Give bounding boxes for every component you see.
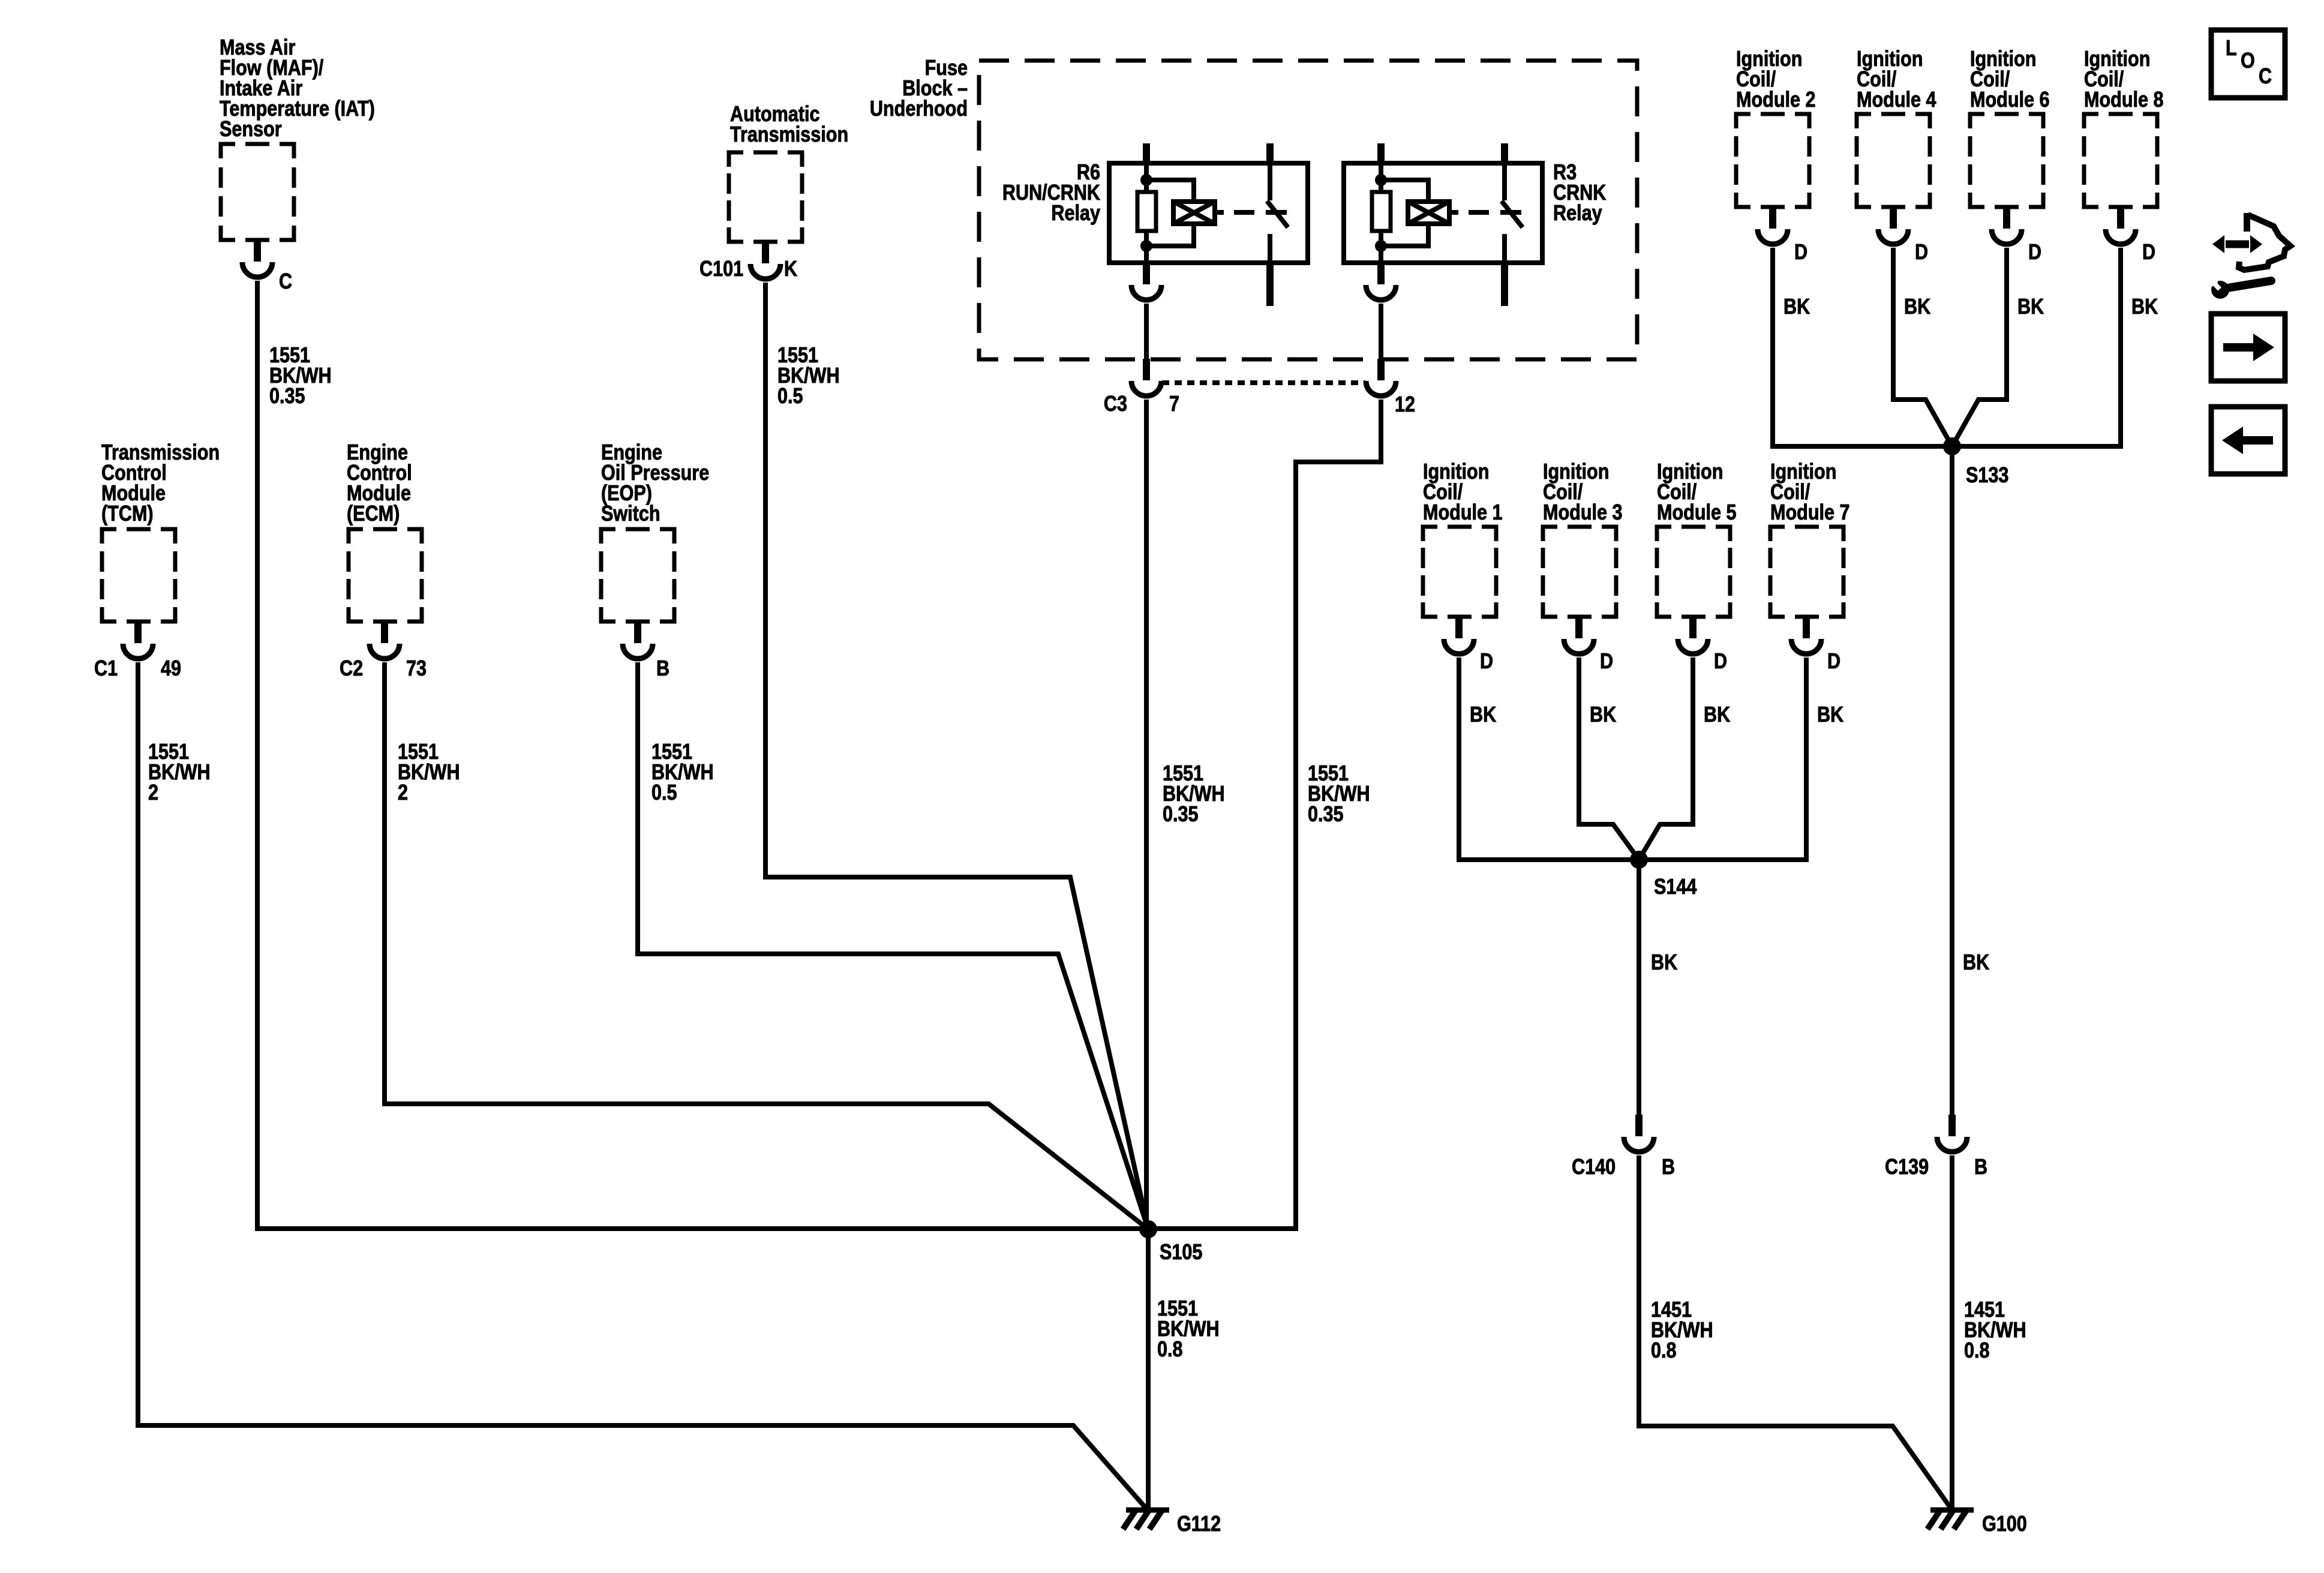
svg-text:0.5: 0.5 — [777, 385, 803, 409]
svg-text:C1: C1 — [94, 657, 118, 681]
Automatic Transmission box — [729, 152, 802, 242]
wire label 1451 BK/WH 0.8 (C139 to G100) — [1964, 1298, 2026, 1363]
svg-text:Relay: Relay — [1051, 202, 1100, 226]
wire coil module 3 to S144 — [1579, 658, 1639, 860]
svg-text:(ECM): (ECM) — [347, 502, 400, 526]
label Ignition Coil/Module 7 — [1770, 460, 1850, 525]
svg-text:2: 2 — [398, 781, 408, 805]
ground G100 — [1927, 1510, 1974, 1529]
svg-text:D: D — [1600, 650, 1613, 674]
label R3 CRNK Relay — [1553, 161, 1606, 226]
wire coil module 8 to S133 — [1952, 248, 2121, 446]
ground G112 — [1123, 1510, 1169, 1529]
service/repair icon (double arrow, part outline, wrench) — [2208, 213, 2290, 299]
connector pin D of Ignition Coil/Module 2 — [1758, 207, 1788, 244]
svg-text:BK: BK — [2131, 295, 2158, 319]
EOP switch box — [601, 529, 674, 622]
wire label 1551 BK/WH 2 (ECM) — [398, 740, 460, 805]
svg-text:(TCM): (TCM) — [101, 502, 154, 526]
svg-text:L: L — [2226, 37, 2237, 61]
svg-text:49: 49 — [161, 657, 181, 681]
Ignition Coil/Module 4 box — [1857, 114, 1930, 207]
svg-text:BK: BK — [1963, 951, 1989, 975]
wire C140 B to G100 — [1639, 1155, 1952, 1510]
svg-text:C139: C139 — [1885, 1155, 1929, 1179]
svg-text:BK: BK — [1470, 703, 1496, 727]
label R6 RUN/CRNK Relay — [1002, 161, 1100, 226]
svg-text:Module 6: Module 6 — [1970, 88, 2050, 112]
svg-text:Module 8: Module 8 — [2084, 88, 2164, 112]
svg-text:Transmission: Transmission — [730, 123, 848, 147]
wire coil module 6 to S133 — [1952, 248, 2007, 446]
svg-text:Switch: Switch — [601, 502, 660, 526]
label Ignition Coil/Module 8 — [2084, 47, 2164, 112]
svg-text:Module 4: Module 4 — [1857, 88, 1936, 112]
connector C1 pin 49 of TCM — [123, 622, 153, 659]
Ignition Coil/Module 3 box — [1543, 527, 1616, 617]
TCM box — [102, 529, 175, 622]
svg-text:K: K — [784, 257, 797, 281]
svg-text:D: D — [1480, 650, 1493, 674]
Ignition Coil/Module 5 box — [1657, 527, 1730, 617]
svg-text:0.35: 0.35 — [269, 385, 305, 409]
label Automatic Transmission — [730, 103, 848, 147]
forward arrow box — [2211, 314, 2285, 381]
connector C101 pin K — [750, 242, 780, 279]
label Engine Control Module (ECM) — [347, 441, 412, 526]
svg-text:O: O — [2241, 49, 2255, 73]
svg-text:0.8: 0.8 — [1157, 1338, 1183, 1362]
connector pin B of EOP switch — [623, 622, 653, 659]
svg-text:Module 1: Module 1 — [1423, 501, 1503, 525]
splice S144 — [1630, 851, 1648, 869]
label Ignition Coil/Module 6 — [1970, 47, 2050, 112]
wire MAF pin C to S105 — [257, 281, 1148, 1229]
wire C139 B down to G100 — [1950, 1155, 1954, 1510]
label Ignition Coil/Module 4 — [1857, 47, 1936, 112]
svg-text:B: B — [656, 657, 669, 681]
svg-text:D: D — [1827, 650, 1840, 674]
connector pin D of Ignition Coil/Module 7 — [1791, 617, 1821, 654]
svg-text:BK: BK — [1704, 703, 1730, 727]
svg-text:S105: S105 — [1160, 1241, 1202, 1265]
back arrow box — [2211, 407, 2285, 474]
svg-text:B: B — [1974, 1155, 1987, 1179]
svg-text:S133: S133 — [1966, 464, 2008, 488]
wire coil module 7 to S144 — [1639, 658, 1806, 860]
wire C3 pin 12 to S105 — [1148, 400, 1381, 1229]
connector C140 pin B — [1624, 1115, 1654, 1152]
svg-text:0.35: 0.35 — [1308, 803, 1344, 827]
label Engine Oil Pressure (EOP) Switch — [601, 441, 709, 526]
Ignition Coil/Module 8 box — [2084, 114, 2157, 207]
svg-text:Module 5: Module 5 — [1657, 501, 1737, 525]
connector C139 pin B — [1937, 1115, 1967, 1152]
wire C101 K to S105 — [765, 283, 1148, 1229]
label Ignition Coil/Module 1 — [1423, 460, 1503, 525]
svg-text:7: 7 — [1169, 392, 1179, 416]
svg-text:G100: G100 — [1982, 1512, 2027, 1536]
MAF/IAT sensor box — [221, 144, 294, 240]
splice S133 — [1943, 437, 1961, 455]
svg-text:Relay: Relay — [1553, 202, 1602, 226]
dotted link between C3 cavities 7 and 12 — [1162, 380, 1365, 385]
wire S144 down to C140 — [1637, 860, 1641, 1118]
wire coil module 5 to S144 — [1639, 658, 1693, 860]
label Ignition Coil/Module 2 — [1736, 47, 1816, 112]
svg-text:Module 7: Module 7 — [1770, 501, 1850, 525]
svg-text:D: D — [1714, 650, 1727, 674]
label Transmission Control Module (TCM) — [101, 441, 220, 526]
relay R6 RUN/CRNK Relay — [1109, 143, 1308, 359]
wire S133 down to C139 — [1950, 446, 1954, 1118]
wire coil module 4 to S133 — [1893, 248, 1952, 446]
svg-text:C140: C140 — [1572, 1155, 1616, 1179]
connector pin D of Ignition Coil/Module 5 — [1678, 617, 1708, 654]
connector pin D of Ignition Coil/Module 3 — [1564, 617, 1594, 654]
svg-text:73: 73 — [406, 657, 427, 681]
svg-text:D: D — [2142, 241, 2155, 265]
Ignition Coil/Module 6 box — [1970, 114, 2043, 207]
svg-text:BK: BK — [1817, 703, 1843, 727]
wire TCM C1 49 to G112 — [138, 662, 1148, 1510]
svg-text:S144: S144 — [1654, 875, 1697, 899]
svg-text:Module 2: Module 2 — [1736, 88, 1816, 112]
wire label 1551 BK/WH 0.35 (RUN/CRNK relay) — [1163, 762, 1225, 827]
svg-text:2: 2 — [148, 781, 158, 805]
svg-text:0.8: 0.8 — [1651, 1339, 1677, 1363]
wire label 1551 BK/WH 0.8 (S105 to G112) — [1157, 1297, 1220, 1362]
wire label 1551 BK/WH 0.35 (MAF) — [269, 344, 332, 409]
relay R3 CRNK Relay — [1344, 143, 1542, 359]
wire label 1551 BK/WH 2 (TCM) — [148, 740, 211, 805]
svg-text:BK: BK — [1590, 703, 1616, 727]
wire S105 down to G112 — [1146, 1229, 1151, 1510]
wire label 1451 BK/WH 0.8 (C140 to G100) — [1651, 1298, 1713, 1363]
wire EOP B to S105 — [638, 662, 1148, 1229]
wire coil module 2 to S133 — [1773, 248, 1952, 446]
svg-text:C: C — [279, 270, 292, 294]
svg-text:BK: BK — [1783, 295, 1810, 319]
connector pin D of Ignition Coil/Module 6 — [1992, 207, 2022, 244]
svg-text:BK: BK — [1651, 951, 1677, 975]
wire label 1551 BK/WH 0.35 (CRNK relay) — [1308, 762, 1370, 827]
wire C3 pin 7 down to S105 — [1144, 400, 1149, 1229]
svg-text:C101: C101 — [699, 257, 743, 281]
svg-text:G112: G112 — [1177, 1512, 1221, 1536]
svg-text:BK: BK — [1904, 295, 1930, 319]
connector C3 pin 12 — [1366, 359, 1396, 396]
svg-text:C: C — [2259, 65, 2272, 89]
svg-text:C3: C3 — [1104, 392, 1127, 416]
Fuse Block - Underhood dashed outline — [979, 61, 1637, 359]
wire ECM C2 73 to S105 — [385, 662, 1148, 1229]
svg-text:Module 3: Module 3 — [1543, 501, 1623, 525]
Ignition Coil/Module 1 box — [1423, 527, 1496, 617]
svg-text:0.8: 0.8 — [1964, 1339, 1990, 1363]
svg-text:D: D — [2028, 241, 2041, 265]
connector pin D of Ignition Coil/Module 4 — [1878, 207, 1908, 244]
svg-text:12: 12 — [1395, 393, 1415, 417]
LOC legend box — [2211, 30, 2285, 98]
svg-text:0.5: 0.5 — [651, 781, 677, 805]
wire label 1551 BK/WH 0.5 (Automatic Transmission) — [777, 344, 840, 409]
Ignition Coil/Module 2 box — [1736, 114, 1809, 207]
wire coil module 1 to S144 — [1459, 658, 1639, 860]
label Ignition Coil/Module 3 — [1543, 460, 1623, 525]
svg-text:B: B — [1662, 1155, 1675, 1179]
svg-text:D: D — [1915, 241, 1928, 265]
wire label 1551 BK/WH 0.5 (EOP) — [651, 740, 714, 805]
label Fuse Block - Underhood — [870, 56, 968, 121]
connector C2 pin 73 of ECM — [370, 622, 400, 659]
svg-text:D: D — [1794, 241, 1807, 265]
label Mass Air Flow (MAF)/Intake Air Temperature (IAT) Sensor — [220, 36, 375, 142]
splice S105 — [1139, 1220, 1157, 1238]
ECM box — [349, 529, 422, 622]
svg-text:0.35: 0.35 — [1163, 803, 1199, 827]
label Ignition Coil/Module 5 — [1657, 460, 1737, 525]
Ignition Coil/Module 7 box — [1770, 527, 1843, 617]
svg-text:Sensor: Sensor — [220, 118, 282, 142]
svg-text:Underhood: Underhood — [870, 97, 968, 121]
connector pin D of Ignition Coil/Module 1 — [1444, 617, 1474, 654]
svg-text:C2: C2 — [340, 657, 363, 681]
connector pin C of MAF/IAT sensor — [242, 240, 272, 277]
connector C3 pin 7 — [1131, 359, 1161, 396]
connector pin D of Ignition Coil/Module 8 — [2106, 207, 2136, 244]
svg-text:BK: BK — [2017, 295, 2044, 319]
